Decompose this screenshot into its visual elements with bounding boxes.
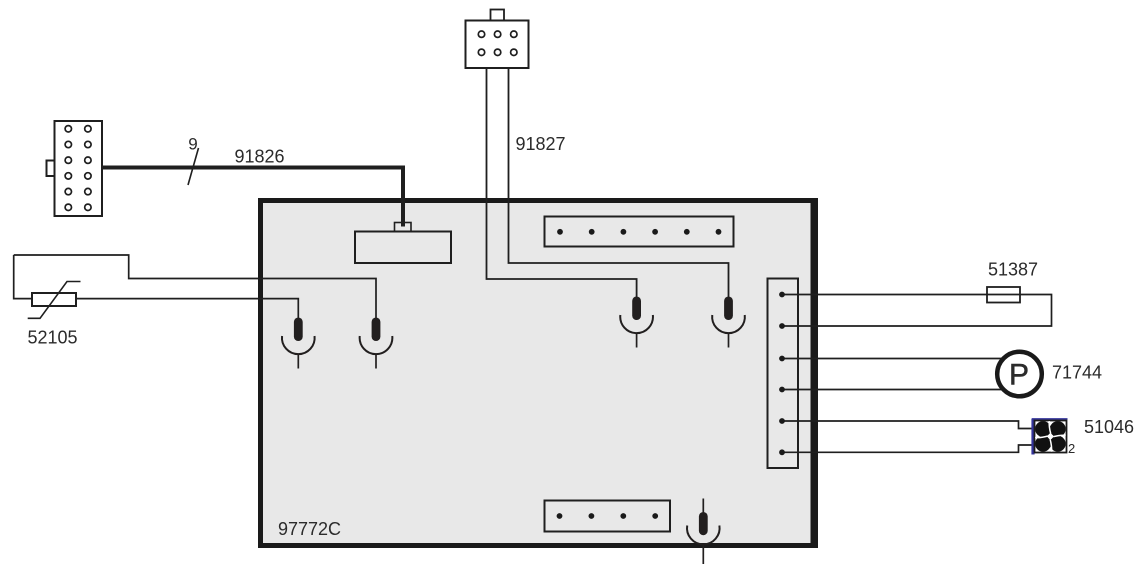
connector J2 (6-pin) [466,10,529,69]
relay module [355,232,451,264]
svg-text:2: 2 [1068,441,1075,456]
connector strip bottom (4 pins) [545,501,671,532]
connector strip top (6 pins) [545,217,734,247]
wire-count marker 9 [188,148,199,185]
fuse 51387 [987,287,1020,303]
pin wire 3 to pressure switch [782,358,1005,360]
pin wire 1 to fuse loop [782,295,1052,327]
svg-text:91827: 91827 [516,134,566,154]
wire 91827 right conductor to electrode E4 [509,69,729,301]
igniter electrode E3 [620,297,653,348]
igniter electrode E1 [282,318,315,369]
svg-text:71744: 71744 [1052,363,1102,383]
svg-text:91826: 91826 [235,147,285,167]
connector strip right (6 pins) [768,279,799,469]
control board 97772C [261,198,816,548]
svg-text:9: 9 [188,135,197,154]
wire 91827 left conductor to electrode E3 [487,69,637,301]
igniter electrode E2 [360,318,393,369]
svg-text:51046: 51046 [1084,417,1134,437]
svg-text:P: P [1009,359,1029,392]
connector J1 (12-pin) [47,121,103,216]
pressure switch 71744 [997,352,1042,397]
svg-text:51387: 51387 [988,260,1038,280]
thermistor circuit left leg [14,255,32,299]
relay terminal stub [395,223,412,232]
wire 91826 (thick harness) [102,168,403,227]
fan motor 51046 [1032,419,1068,455]
pin wire 6 to fan [782,445,1034,452]
svg-text:52105: 52105 [28,328,78,348]
thermistor 52105 body [32,293,76,306]
thermistor circuit top wire to electrode E2 [14,255,376,320]
igniter electrode E4 [712,297,745,348]
pin wire 5 to fan [782,421,1034,429]
thermistor circuit bottom wire to electrode E1 [76,299,298,320]
igniter electrode E5 (bottom) [687,499,720,565]
svg-text:97772C: 97772C [278,519,341,539]
pin wire 4 to pressure switch [782,389,1005,391]
thermistor 52105 diagonal [28,282,81,319]
